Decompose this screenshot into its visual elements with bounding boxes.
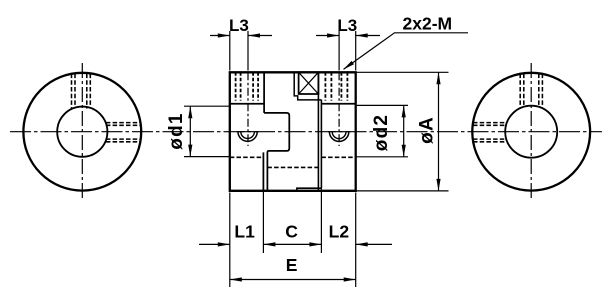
dimension L1/C/L2: lines and arrows [199, 243, 392, 245]
right front view: top tapped hole (hidden) [520, 74, 542, 108]
svg-text:ød2: ød2 [371, 114, 392, 151]
side view: right hub setscrew holes (hidden) [325, 72, 347, 100]
dimension phi-A: extension lines [356, 72, 448, 191]
svg-text:øA: øA [417, 116, 438, 144]
centerline: left setscrew vertical [247, 72, 249, 146]
side view: disc tenon tab [264, 113, 289, 191]
svg-text:L3: L3 [337, 16, 357, 35]
svg-text:2x2-M: 2x2-M [403, 14, 453, 34]
side view: disc top step contour [294, 72, 321, 100]
left hub front view: bore circle d1 [57, 107, 107, 157]
dimension E: line and arrows [230, 279, 356, 281]
axis chord at right screw [328, 131, 351, 133]
dimension phi-d1: dim line with arrows [189, 106, 191, 156]
centerline: right circle vertical [530, 63, 532, 201]
dimension L3 right: extension lines [339, 31, 356, 71]
dimension L3 left: arrows [210, 35, 272, 37]
side view: right hub left face [317, 72, 319, 191]
side view: left hub setscrew holes (hidden) [236, 72, 259, 100]
right hub front view: outer circle [472, 73, 590, 191]
left front view: top tapped hole (hidden) [72, 74, 91, 109]
leader 2x2-M [344, 33, 468, 69]
side view: keyway box diagonals [299, 72, 319, 94]
side view: right bore bottom (hidden) [321, 156, 355, 158]
svg-text:E: E [286, 255, 298, 275]
dimension phi-d2: extension lines [356, 105, 408, 156]
side view: left bore bottom (hidden) [230, 156, 264, 158]
dimension L3 right: arrows [316, 35, 380, 37]
axis chord at left screw [237, 131, 260, 133]
side view: left setscrew semicircle [238, 132, 257, 142]
right front view: side tapped hole (hidden) [473, 123, 507, 142]
dimension phi-A: dim line with arrows [438, 72, 440, 191]
side view: disc bottom notch [297, 188, 322, 191]
right hub front view: bore circle d2 [505, 106, 557, 158]
svg-text:L1: L1 [234, 222, 255, 242]
svg-text:ød1: ød1 [166, 112, 187, 149]
side view: right setscrew semicircle [329, 132, 348, 142]
side view: body outline [230, 72, 356, 191]
side view: right hub bore top line [321, 103, 355, 105]
svg-text:L3: L3 [229, 16, 249, 35]
side view: left hub right edge upper [263, 72, 265, 113]
centerline: right setscrew vertical [338, 72, 340, 146]
centerline: left circle vertical [81, 63, 83, 201]
svg-text:L2: L2 [329, 222, 350, 242]
side view: disc slot bottom (hidden) [267, 166, 321, 168]
dimension L3 left: extension lines [230, 31, 248, 71]
side view: left hub bore top line [230, 103, 264, 105]
dimension phi-d2: dim line with arrows [403, 105, 405, 156]
svg-text:C: C [285, 222, 298, 242]
dimension phi-d1: extension lines [184, 106, 229, 156]
centerline: main axis [10, 131, 602, 133]
side view: left hub right edge lower [262, 152, 264, 190]
side view: disc right edge [320, 100, 322, 189]
left front view: side tapped hole (hidden) [106, 123, 141, 142]
left hub front view: outer circle [23, 73, 141, 191]
side view: keyway box [299, 72, 319, 94]
bottom dims: extension lines [230, 188, 356, 287]
